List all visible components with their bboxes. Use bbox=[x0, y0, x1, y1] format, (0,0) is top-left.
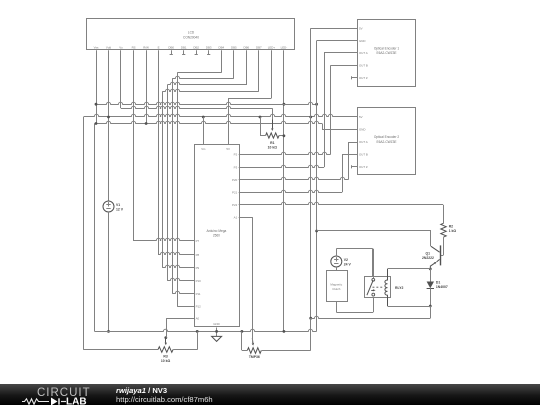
svg-text:1N4007: 1N4007 bbox=[436, 285, 448, 289]
svg-text:P11: P11 bbox=[196, 292, 201, 296]
svg-text:R3: R3 bbox=[163, 354, 167, 358]
svg-text:P2: P2 bbox=[234, 153, 238, 157]
svg-text:P7: P7 bbox=[196, 239, 200, 243]
svg-text:OUT A: OUT A bbox=[359, 140, 368, 144]
svg-text:GND: GND bbox=[359, 39, 365, 43]
svg-text:V2: V2 bbox=[344, 258, 348, 262]
svg-text:5V: 5V bbox=[359, 115, 363, 119]
svg-text:DB2: DB2 bbox=[193, 45, 199, 49]
svg-text:RLY2: RLY2 bbox=[395, 286, 403, 290]
svg-text:R2: R2 bbox=[449, 224, 453, 228]
svg-text:DB7: DB7 bbox=[256, 45, 262, 49]
svg-text:V1: V1 bbox=[116, 203, 120, 207]
svg-text:Vdd: Vdd bbox=[106, 45, 112, 49]
svg-text:Magnetic: Magnetic bbox=[330, 282, 342, 286]
svg-text:LED+: LED+ bbox=[268, 45, 276, 49]
svg-text:GND: GND bbox=[213, 322, 219, 326]
svg-text:LED-: LED- bbox=[281, 45, 288, 49]
svg-text:LAB: LAB bbox=[66, 396, 87, 405]
svg-text:GND: GND bbox=[359, 128, 365, 132]
svg-text:Vo: Vo bbox=[119, 45, 123, 49]
svg-text:DB6: DB6 bbox=[243, 45, 249, 49]
svg-text:A1: A1 bbox=[234, 215, 238, 219]
svg-text:DB0: DB0 bbox=[168, 45, 174, 49]
svg-text:P9: P9 bbox=[196, 266, 200, 270]
svg-text:E6A2-CWZ3E: E6A2-CWZ3E bbox=[376, 140, 396, 144]
svg-text:TMP36: TMP36 bbox=[249, 355, 260, 359]
svg-text:OUT Z: OUT Z bbox=[359, 76, 368, 80]
svg-text:5V: 5V bbox=[359, 26, 363, 30]
svg-text:E6A2-CWZ3E: E6A2-CWZ3E bbox=[376, 51, 396, 55]
svg-text:DB5: DB5 bbox=[231, 45, 237, 49]
svg-text:RS: RS bbox=[132, 45, 136, 49]
svg-text:CON20040: CON20040 bbox=[183, 36, 199, 40]
svg-text:2560: 2560 bbox=[213, 234, 220, 238]
svg-text:Optical Encoder 1: Optical Encoder 1 bbox=[374, 46, 400, 50]
svg-text:R/W: R/W bbox=[143, 45, 149, 49]
svg-text:D1: D1 bbox=[436, 280, 440, 284]
svg-text:24 V: 24 V bbox=[344, 263, 352, 267]
svg-text:P12: P12 bbox=[196, 305, 202, 309]
svg-text:OUT A: OUT A bbox=[359, 51, 368, 55]
svg-text:P22: P22 bbox=[232, 203, 238, 207]
svg-text:P20: P20 bbox=[232, 178, 238, 182]
svg-text:P21: P21 bbox=[232, 191, 238, 195]
svg-text:DB1: DB1 bbox=[181, 45, 187, 49]
svg-text:10 kΩ: 10 kΩ bbox=[161, 359, 171, 363]
svg-text:DB4: DB4 bbox=[218, 45, 224, 49]
svg-text:LCD: LCD bbox=[188, 31, 195, 35]
svg-text:DB3: DB3 bbox=[206, 45, 212, 49]
svg-text:OUT B: OUT B bbox=[359, 153, 368, 157]
svg-text:P8: P8 bbox=[196, 253, 200, 257]
svg-text:E: E bbox=[158, 45, 160, 49]
svg-text:Vin: Vin bbox=[201, 147, 206, 151]
svg-text:OUT Z: OUT Z bbox=[359, 165, 368, 169]
svg-text:Q1: Q1 bbox=[425, 251, 430, 255]
svg-text:P10: P10 bbox=[196, 279, 202, 283]
svg-text:5V: 5V bbox=[226, 147, 230, 151]
svg-text:OUT B: OUT B bbox=[359, 64, 368, 68]
svg-text:Optical Encoder 2: Optical Encoder 2 bbox=[374, 135, 400, 139]
svg-text:2N2222: 2N2222 bbox=[422, 256, 434, 260]
svg-text:Arduino Mega: Arduino Mega bbox=[206, 229, 226, 233]
svg-text:R1: R1 bbox=[270, 141, 274, 145]
svg-text:P3: P3 bbox=[234, 165, 238, 169]
svg-text:Clutch: Clutch bbox=[332, 287, 341, 291]
svg-text:1 kΩ: 1 kΩ bbox=[449, 229, 457, 233]
svg-text:10 kΩ: 10 kΩ bbox=[268, 146, 278, 150]
svg-text:12 V: 12 V bbox=[116, 208, 124, 212]
svg-text:A0: A0 bbox=[196, 317, 200, 321]
svg-text:Vss: Vss bbox=[94, 45, 99, 49]
